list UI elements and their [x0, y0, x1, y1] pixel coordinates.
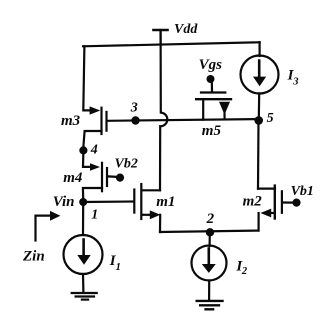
I2 label — [235, 258, 248, 277]
transistor m2 — [258, 186, 293, 231]
transistor m3 — [83, 106, 106, 146]
I3 label — [287, 68, 299, 88]
current source I1 — [64, 202, 103, 293]
node 5 — [254, 111, 273, 126]
power rail Vdd — [154, 30, 168, 45]
svg-text:Vgs: Vgs — [199, 57, 223, 73]
transistor m1 — [134, 184, 160, 232]
wire node2 rail — [160, 231, 258, 232]
svg-text:Zin: Zin — [22, 249, 45, 265]
svg-text:2: 2 — [206, 211, 215, 227]
svg-text:m3: m3 — [61, 113, 81, 129]
svg-text:m2: m2 — [243, 193, 263, 209]
input impedance arrow Zin — [22, 211, 60, 265]
svg-text:m5: m5 — [202, 123, 222, 139]
transistor m5 — [196, 93, 231, 120]
node 3 — [130, 101, 140, 125]
svg-text:Vb1: Vb1 — [291, 184, 314, 199]
node 4 — [79, 143, 98, 158]
node 2 — [206, 211, 215, 237]
svg-text:3: 3 — [130, 101, 138, 116]
wire left branch from rail down to m3 — [83, 46, 90, 110]
wire node5 down to m2 — [257, 120, 260, 188]
I1 label — [109, 253, 121, 273]
svg-text:Vin: Vin — [53, 194, 75, 210]
svg-text:2: 2 — [241, 266, 248, 277]
svg-text:Vdd: Vdd — [174, 22, 198, 37]
current source I3 — [241, 42, 279, 119]
bias Vb1 — [291, 184, 314, 207]
wire center vertical with hop over node3 wire — [160, 32, 167, 191]
svg-text:Vb2: Vb2 — [115, 157, 138, 172]
bias Vb2 — [115, 157, 138, 182]
svg-text:1: 1 — [91, 208, 98, 223]
wire node1 to m1 gate — [83, 200, 133, 203]
transistor m4 — [83, 150, 116, 198]
wire top rail — [83, 42, 260, 46]
current source I2 — [192, 232, 227, 300]
node 1 Vin — [53, 194, 98, 223]
ground (under I1) — [72, 293, 97, 300]
wire node3 horizontal (m3 gate to node 5) — [108, 119, 259, 121]
svg-text:5: 5 — [267, 111, 274, 126]
svg-text:3: 3 — [292, 76, 298, 87]
bias Vgs — [199, 57, 223, 91]
ground (under I2) — [197, 301, 223, 309]
svg-text:m1: m1 — [156, 194, 175, 210]
svg-text:1: 1 — [116, 262, 121, 273]
svg-text:4: 4 — [90, 143, 98, 158]
svg-text:m4: m4 — [63, 170, 83, 186]
